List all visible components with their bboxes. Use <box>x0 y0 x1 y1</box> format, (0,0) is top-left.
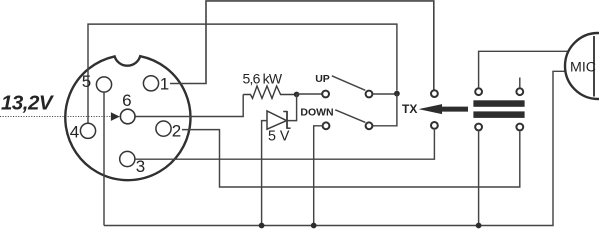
wire pin 6 to resistor left lead <box>135 95 243 117</box>
wire pin 2 down and across to transformer bottom-right <box>182 130 520 187</box>
pin 5 <box>96 77 111 92</box>
TX lower contact <box>431 122 438 129</box>
svg-text:5 V: 5 V <box>268 128 290 144</box>
TX arrow <box>419 104 469 114</box>
svg-text:6: 6 <box>122 91 131 110</box>
transformer T1 top-left terminal <box>475 88 482 95</box>
wire junction down to zener cathode <box>287 94 297 120</box>
wire DOWN left contact jog down to bottom rail <box>314 126 323 226</box>
pin 3 <box>120 151 135 166</box>
wire line B: pin 4 up and across to UP/DOWN switch common <box>88 24 397 124</box>
transformer T1 upper winding bar <box>473 100 524 107</box>
transformer T1 top-right terminal <box>516 88 523 95</box>
arrowhead into pin 6 <box>111 112 120 121</box>
switch UP lever <box>332 76 366 91</box>
stub transformer top-right <box>519 78 521 89</box>
wire dotted supply feed into pin 6 <box>0 116 111 118</box>
svg-text:4: 4 <box>70 123 79 142</box>
svg-text:UP: UP <box>315 73 330 85</box>
switch UP right contact <box>366 91 373 98</box>
switch DOWN left contact <box>323 122 330 129</box>
wire UP right contact to junction <box>373 93 397 95</box>
zener diode D1 <box>267 111 291 129</box>
transformer T1 lower winding bar <box>473 111 524 118</box>
pin 2 <box>156 121 171 136</box>
TX upper contact <box>431 90 438 97</box>
pin 4 <box>80 123 95 138</box>
junction dot UP common <box>394 91 400 97</box>
svg-text:13,2V: 13,2V <box>1 91 55 114</box>
microphone MIC body <box>565 33 599 99</box>
resistor R1 5,6 k <box>243 86 296 98</box>
wire pin 1 up and across (line A) to TX upper contact <box>170 1 434 90</box>
transformer T1 bottom-right terminal <box>516 124 523 131</box>
transformer T1 bottom-left terminal <box>475 124 482 131</box>
junction dot transformer / bottom rail <box>476 223 482 229</box>
node junction dot resistor/UP/zener <box>294 92 300 98</box>
wire transformer top-left up to MIC <box>479 51 569 88</box>
wire bottom rail <box>104 71 566 225</box>
microphone electret electrode line <box>593 36 595 97</box>
svg-text:DOWN: DOWN <box>300 107 333 119</box>
svg-text:5,6 kW: 5,6 kW <box>243 70 283 86</box>
pin 6 <box>120 109 135 124</box>
junction dot DOWN / bottom rail <box>311 223 317 229</box>
switch DOWN right contact <box>366 122 373 129</box>
junction dot zener anode / bottom rail <box>259 223 265 229</box>
svg-text:2: 2 <box>172 122 181 141</box>
wire junction down to DOWN right contact <box>373 94 397 126</box>
svg-text:1: 1 <box>160 74 169 93</box>
svg-text:TX: TX <box>402 102 417 116</box>
wire junction to UP left contact <box>297 93 322 95</box>
switch DOWN lever <box>335 110 365 123</box>
wire pin 3 across to TX lower contact <box>134 130 434 159</box>
svg-text:5: 5 <box>82 72 91 91</box>
connector shell (6-pin DIN plug with key notch) <box>65 56 190 180</box>
switch UP left contact <box>322 91 329 98</box>
pin 1 <box>143 76 158 91</box>
svg-text:MIC: MIC <box>570 59 596 75</box>
wire zener anode down to bottom rail <box>262 121 267 226</box>
wire transformer bottom-left down to bottom rail <box>478 131 480 226</box>
wire pin 5 down to bottom rail <box>103 91 105 225</box>
